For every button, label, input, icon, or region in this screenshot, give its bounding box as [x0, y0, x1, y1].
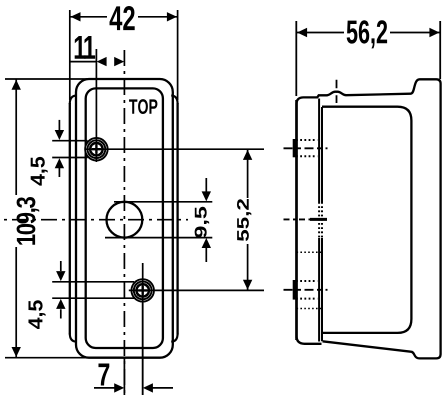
screw M2 (bottom) — [131, 278, 155, 302]
dim 11 text — [75, 36, 95, 59]
lens inner rounded rect — [86, 88, 163, 348]
grommet band bottom left bar — [293, 280, 296, 300]
screw M1 (top) — [84, 137, 108, 161]
dim 42 arrow left — [71, 12, 81, 21]
dim 109,3 ext line bottom — [5, 357, 90, 359]
central hole side center line thick dash — [310, 218, 327, 221]
hidden grommet band bottom (dotted rows) — [296, 281, 317, 299]
side view outer profile — [297, 79, 441, 358]
housing outer body side right — [176, 103, 178, 335]
dim 42 ext line left — [69, 10, 71, 100]
dim 56,2 line — [296, 32, 440, 34]
screw M1 horizontal center line — [85, 148, 264, 150]
hidden edge dotted row mid — [297, 251, 323, 253]
hidden edge dotted row low — [297, 308, 323, 310]
ear arc top-left — [70, 96, 77, 104]
dim 56,2 arrow left — [297, 28, 307, 37]
dim 42 ext line right — [177, 10, 179, 100]
bracket plate left face — [295, 100, 298, 340]
screw M2 vertical line — [142, 263, 144, 395]
dim 42 line — [70, 16, 178, 18]
back wall line outer — [318, 99, 320, 342]
hole tangent line lower (9,5) — [105, 237, 212, 239]
dim 109,3 arrow top — [12, 80, 21, 90]
vertical center line (dash-dot) — [123, 50, 125, 395]
dim 4,5 top arrow upper — [58, 120, 60, 130]
screw M1 vertical line — [95, 49, 97, 162]
dim 55,2 arrow bottom — [243, 280, 252, 290]
dim 42 text — [110, 6, 135, 30]
screw M2 tangent line lower — [52, 297, 134, 299]
dim 4,5 bottom arrow upper — [60, 261, 62, 271]
dim 9,5 arrow upper — [205, 178, 207, 192]
ear arc bottom-left — [70, 334, 77, 342]
hidden grommet band top (dotted rows) — [296, 140, 317, 156]
ear arc top-right — [171, 96, 177, 104]
dim 109,3 line — [15, 79, 17, 358]
screw M2 side center line — [284, 289, 328, 291]
TOP marking text — [129, 99, 157, 114]
housing cap outline (outer rounded rect) — [76, 79, 173, 358]
dim 56,2 ext line left — [295, 21, 297, 96]
central hole hidden edge dotted columns — [318, 202, 320, 238]
dim 7 ext line center — [123, 358, 125, 395]
dim 11 arrow right — [114, 57, 124, 66]
dim 9,5 arrow lower — [205, 248, 207, 263]
dim 4,5 bottom text (rotated) — [28, 300, 45, 329]
housing outer body side left — [69, 103, 71, 335]
hole tangent line upper (9,5) — [114, 201, 212, 203]
central hole circle — [107, 202, 143, 238]
screw M1 tangent line lower — [52, 157, 87, 159]
dim 7 ext line screw — [142, 303, 144, 395]
dim 56,2 ext line right — [439, 21, 441, 79]
ear arc bottom-right — [171, 334, 177, 342]
dim 109,3 ext line top — [5, 78, 90, 80]
horizontal center line (dash-dot) — [4, 219, 188, 221]
dim 7 line right + arrow — [153, 387, 174, 389]
screw M2 horizontal center line — [129, 289, 264, 291]
screw M1 side center line — [284, 147, 328, 149]
dim 7 line left + arrow — [94, 387, 115, 389]
lens body inner profile — [322, 107, 411, 333]
dim 56,2 text — [347, 20, 387, 48]
dim 11 arrow left — [97, 57, 107, 66]
dim 7 text — [98, 363, 109, 385]
dim 9,5 text (rotated) — [195, 207, 210, 238]
dim 4,5 top arrow lower — [58, 168, 60, 177]
dim 55,2 text (rotated) — [237, 199, 251, 241]
screw M1 tangent line upper — [52, 140, 87, 142]
dim 4,5 bottom arrow lower — [60, 309, 62, 318]
dim 55,2 arrow top — [243, 150, 252, 160]
central hole side center line — [284, 218, 311, 220]
dim 42 arrow right — [167, 12, 177, 21]
dim 4,5 top text (rotated) — [31, 157, 48, 186]
dim 109,3 text (rotated) — [17, 197, 40, 245]
dim 11 leader line — [70, 61, 97, 63]
dim 109,3 arrow bottom — [12, 347, 21, 357]
dim 55,2 line — [247, 149, 249, 290]
screw M2 tangent line upper — [52, 281, 134, 283]
drain nub center line (dash-dot) — [336, 80, 338, 103]
dim 56,2 arrow right — [429, 28, 439, 37]
grommet band top left bar — [293, 139, 296, 157]
back wall line inner — [321, 107, 323, 341]
